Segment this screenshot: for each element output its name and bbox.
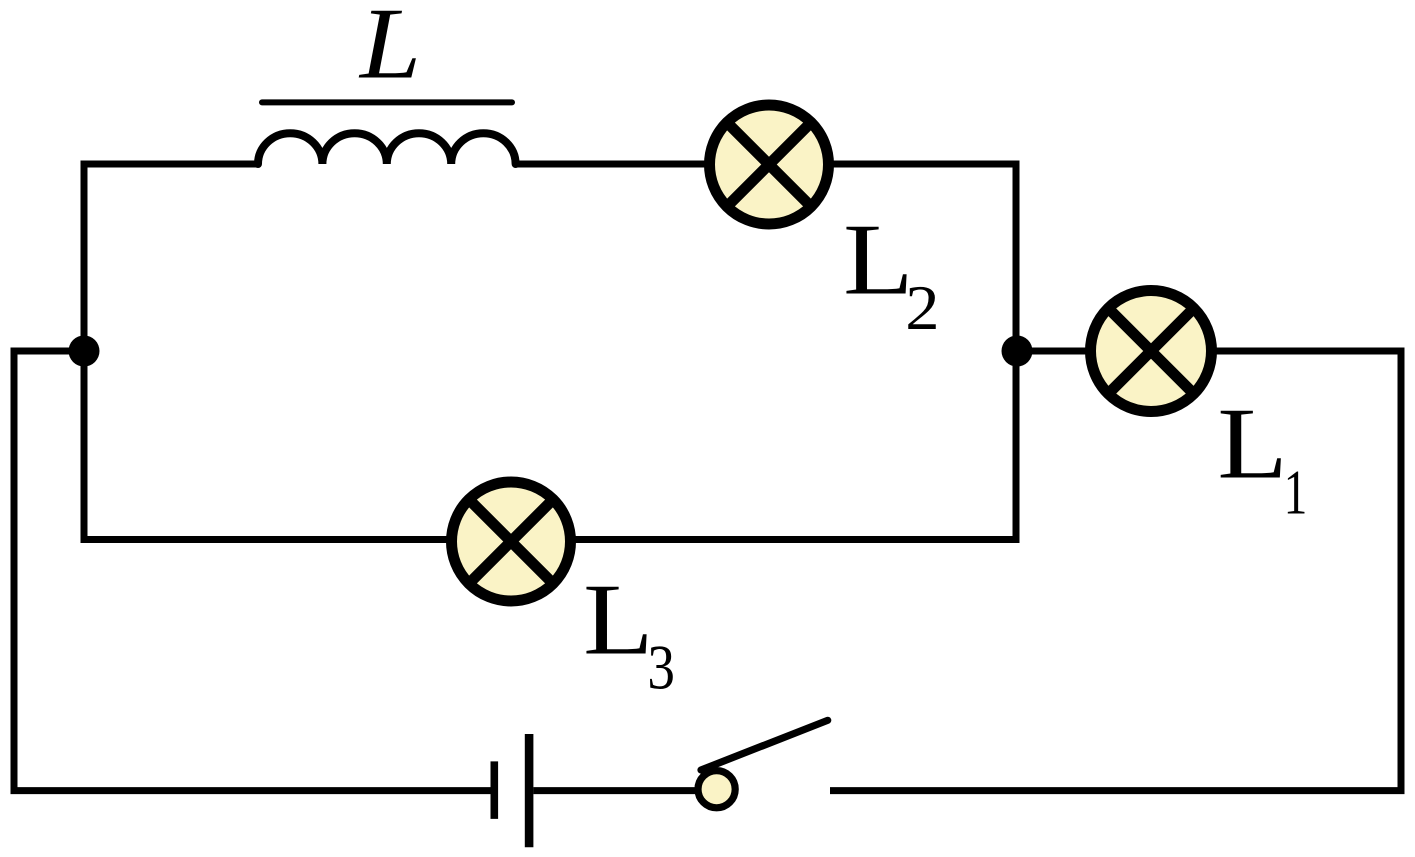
node: left junction — [69, 336, 100, 367]
svg-text:1: 1 — [1284, 456, 1308, 527]
battery plate long (positive) — [525, 734, 534, 847]
switch S lever — [701, 720, 828, 770]
wire: battery to switch — [533, 787, 698, 794]
wire: top-left segment, inner-left vertical, inner bottom-left segment — [84, 164, 450, 540]
lamp L3 — [452, 482, 571, 601]
inductor L (4 humps) — [258, 133, 516, 164]
wire: stub from left junction, outer-left vertical, bottom wire to battery — [14, 351, 491, 791]
wire: lamp L2 to top-right corner, down through junction to inner bottom wire, left to lamp L3 — [572, 164, 1016, 540]
wire: inductor to lamp L2 — [516, 161, 706, 168]
battery plate short (negative) — [490, 761, 498, 819]
lamp L2 — [710, 105, 829, 224]
svg-text:L: L — [358, 0, 421, 101]
svg-text:L: L — [843, 204, 913, 317]
label L overbar — [262, 99, 512, 105]
node: right junction — [1002, 336, 1033, 367]
wire: lamp L1 right to outer-right vertical, down and along bottom to switch gap — [830, 351, 1401, 791]
svg-text:L: L — [583, 564, 653, 677]
svg-text:2: 2 — [905, 272, 939, 343]
switch S pivot — [698, 771, 735, 808]
svg-text:3: 3 — [647, 632, 675, 703]
wire: right junction to lamp L1 — [1017, 348, 1087, 355]
lamp L1 — [1091, 291, 1212, 412]
svg-text:L: L — [1217, 388, 1287, 501]
